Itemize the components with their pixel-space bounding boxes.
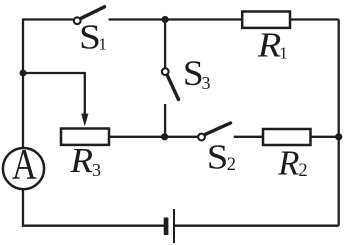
ammeter A [3,141,44,190]
svg-text:1: 1 [98,35,107,54]
svg-text:R: R [277,143,299,182]
svg-text:1: 1 [279,43,288,62]
wire: battery to bottom-right corner [174,225,339,227]
wire: S3 branch upper segment [164,20,166,69]
wire: S3 branch lower segment [164,104,166,137]
svg-text:3: 3 [92,160,101,180]
svg-text:2: 2 [227,155,236,175]
wire: middle row from S2 to right junction [234,136,339,138]
wire: right side vertical [338,20,340,226]
node: right junction [335,133,342,140]
svg-text:2: 2 [298,161,307,181]
rheostat R3 wiper arrowhead [81,114,88,127]
wire: top-left horizontal from corner to S1 [23,20,73,149]
battery negative plate (short thick) [164,218,169,236]
svg-text:A: A [12,141,37,189]
svg-text:S: S [207,138,229,177]
switch S1 [74,7,105,24]
node: top junction of S3 branch [162,16,169,23]
rheostat R3 (box) [61,129,109,145]
resistor R2 [263,129,311,145]
wire: middle row from R3 to S2 [109,136,198,138]
wire: bottom left to battery [23,190,165,226]
battery positive plate (long thin) [173,209,175,243]
resistor R1 [242,12,290,28]
svg-text:R: R [69,141,93,180]
wire: rheostat wiper branch from left junction [23,73,85,115]
svg-text:3: 3 [202,73,211,93]
svg-text:R: R [257,25,282,64]
switch S2 [198,123,230,140]
wire: top horizontal from S1 to top-right corner [109,18,339,20]
switch S3 [162,68,179,99]
node: left junction (wiper tap) [20,70,27,77]
node: middle junction [161,133,168,140]
